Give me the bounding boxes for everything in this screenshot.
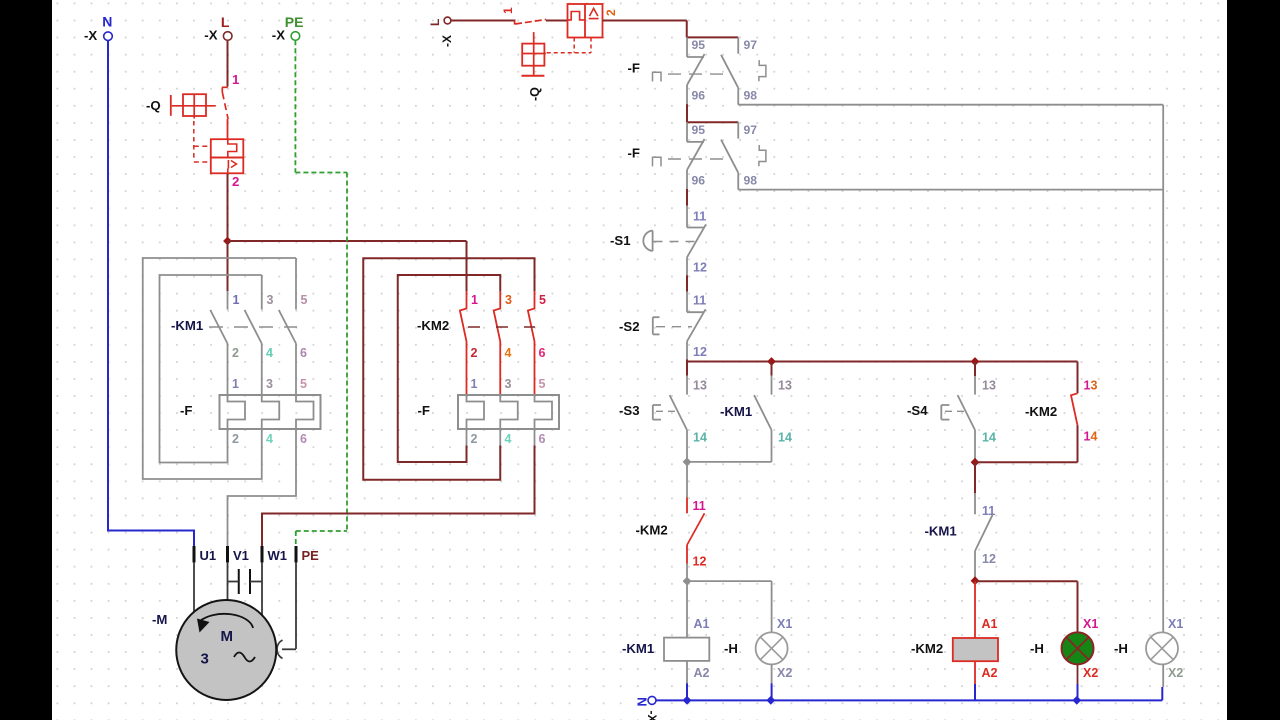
svg-text:N: N — [102, 14, 112, 30]
svg-text:X2: X2 — [1168, 666, 1183, 680]
svg-text:3: 3 — [505, 377, 512, 391]
svg-text:-KM2: -KM2 — [1025, 404, 1057, 419]
svg-text:6: 6 — [539, 432, 546, 446]
svg-text:-Q: -Q — [528, 87, 542, 101]
svg-text:L: L — [428, 19, 442, 26]
svg-text:1: 1 — [232, 377, 239, 391]
svg-text:97: 97 — [744, 38, 758, 52]
svg-text:1: 1 — [1084, 379, 1091, 393]
svg-text:2: 2 — [232, 346, 239, 360]
svg-text:-S3: -S3 — [619, 403, 640, 418]
svg-text:-KM2: -KM2 — [636, 523, 668, 538]
svg-text:4: 4 — [266, 346, 273, 360]
svg-text:M: M — [221, 628, 234, 645]
svg-text:-H: -H — [1030, 641, 1044, 656]
svg-text:-KM2: -KM2 — [417, 318, 449, 333]
svg-text:-X: -X — [204, 28, 217, 43]
svg-text:3: 3 — [267, 293, 274, 307]
svg-text:-S2: -S2 — [619, 319, 640, 334]
svg-text:5: 5 — [539, 377, 546, 391]
svg-text:95: 95 — [692, 38, 706, 52]
svg-text:12: 12 — [982, 552, 996, 566]
svg-text:3: 3 — [266, 377, 273, 391]
svg-text:14: 14 — [982, 430, 996, 444]
svg-text:6: 6 — [539, 346, 546, 360]
svg-text:-X: -X — [645, 711, 659, 720]
svg-text:1: 1 — [1084, 430, 1091, 444]
svg-text:12: 12 — [693, 555, 707, 569]
svg-text:-Q: -Q — [146, 98, 161, 113]
svg-text:A2: A2 — [694, 666, 710, 680]
svg-text:1: 1 — [471, 377, 478, 391]
svg-text:2: 2 — [471, 346, 478, 360]
svg-text:1: 1 — [501, 7, 515, 14]
svg-text:11: 11 — [693, 294, 706, 308]
svg-text:-KM1: -KM1 — [171, 318, 203, 333]
svg-text:4: 4 — [1091, 430, 1098, 444]
svg-text:14: 14 — [693, 430, 707, 444]
svg-text:11: 11 — [693, 210, 706, 224]
svg-text:2: 2 — [232, 174, 239, 189]
svg-text:11: 11 — [982, 504, 995, 518]
svg-text:95: 95 — [692, 123, 706, 137]
svg-text:L: L — [221, 14, 230, 30]
svg-text:W1: W1 — [268, 548, 288, 563]
svg-text:X1: X1 — [1083, 617, 1098, 631]
svg-text:PE: PE — [285, 14, 304, 30]
svg-text:3: 3 — [1091, 379, 1098, 393]
svg-text:98: 98 — [744, 88, 758, 102]
svg-text:98: 98 — [744, 173, 758, 187]
svg-text:1: 1 — [471, 293, 478, 307]
svg-text:A1: A1 — [982, 617, 998, 631]
svg-text:-F: -F — [628, 145, 640, 160]
svg-text:3: 3 — [201, 651, 209, 668]
svg-text:X2: X2 — [777, 666, 792, 680]
svg-text:2: 2 — [471, 432, 478, 446]
svg-text:PE: PE — [302, 548, 320, 563]
svg-text:X2: X2 — [1083, 666, 1098, 680]
svg-text:-KM1: -KM1 — [622, 641, 654, 656]
svg-text:-F: -F — [418, 403, 430, 418]
svg-text:5: 5 — [301, 293, 308, 307]
svg-text:97: 97 — [744, 123, 758, 137]
svg-text:-F: -F — [628, 60, 640, 75]
svg-text:X1: X1 — [777, 617, 792, 631]
svg-text:13: 13 — [778, 378, 792, 392]
svg-text:96: 96 — [692, 88, 706, 102]
svg-text:12: 12 — [693, 260, 707, 274]
svg-text:-S1: -S1 — [610, 233, 631, 248]
svg-text:5: 5 — [300, 377, 307, 391]
svg-text:V1: V1 — [233, 548, 249, 563]
svg-text:-KM1: -KM1 — [720, 404, 752, 419]
svg-text:1: 1 — [232, 72, 239, 87]
svg-text:2: 2 — [604, 9, 618, 16]
svg-text:13: 13 — [693, 378, 707, 392]
svg-text:-M: -M — [152, 612, 167, 627]
svg-text:-X: -X — [272, 28, 285, 43]
svg-text:13: 13 — [982, 378, 996, 392]
svg-text:5: 5 — [539, 293, 546, 307]
svg-text:-H: -H — [724, 641, 738, 656]
svg-text:12: 12 — [693, 345, 707, 359]
svg-text:X1: X1 — [1168, 617, 1183, 631]
svg-text:-X: -X — [84, 28, 97, 43]
svg-text:-S4: -S4 — [907, 403, 928, 418]
svg-text:2: 2 — [232, 432, 239, 446]
svg-text:A2: A2 — [982, 666, 998, 680]
svg-text:-KM1: -KM1 — [925, 524, 957, 539]
svg-text:4: 4 — [505, 346, 512, 360]
svg-text:4: 4 — [505, 432, 512, 446]
svg-text:U1: U1 — [200, 548, 217, 563]
svg-text:A1: A1 — [694, 617, 710, 631]
svg-text:1: 1 — [233, 293, 240, 307]
svg-text:-F: -F — [180, 403, 192, 418]
svg-text:N: N — [635, 697, 650, 706]
svg-text:6: 6 — [300, 346, 307, 360]
svg-text:-H: -H — [1114, 641, 1128, 656]
svg-text:14: 14 — [778, 430, 792, 444]
svg-text:11: 11 — [693, 499, 706, 513]
svg-text:3: 3 — [505, 293, 512, 307]
svg-text:4: 4 — [266, 432, 273, 446]
svg-text:-KM2: -KM2 — [911, 641, 943, 656]
svg-text:96: 96 — [692, 173, 706, 187]
svg-text:-X: -X — [440, 35, 454, 47]
svg-text:6: 6 — [300, 432, 307, 446]
